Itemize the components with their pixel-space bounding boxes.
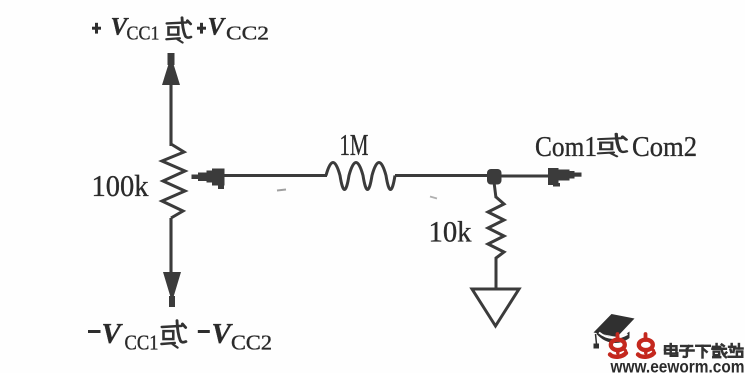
svg-text:CC2: CC2 — [231, 331, 272, 355]
svg-text:1M: 1M — [340, 128, 369, 162]
svg-text:CC1: CC1 — [127, 24, 160, 45]
svg-text:CC1: CC1 — [125, 331, 159, 355]
svg-text:10k: 10k — [429, 216, 472, 249]
svg-text:V: V — [208, 14, 227, 41]
svg-text:www.eeworm.com: www.eeworm.com — [610, 356, 745, 373]
svg-text:Com1: Com1 — [535, 131, 597, 163]
svg-text:100k: 100k — [92, 168, 149, 203]
svg-text:V: V — [102, 318, 124, 350]
svg-text:Com2: Com2 — [632, 131, 697, 163]
svg-text:CC2: CC2 — [226, 23, 269, 45]
